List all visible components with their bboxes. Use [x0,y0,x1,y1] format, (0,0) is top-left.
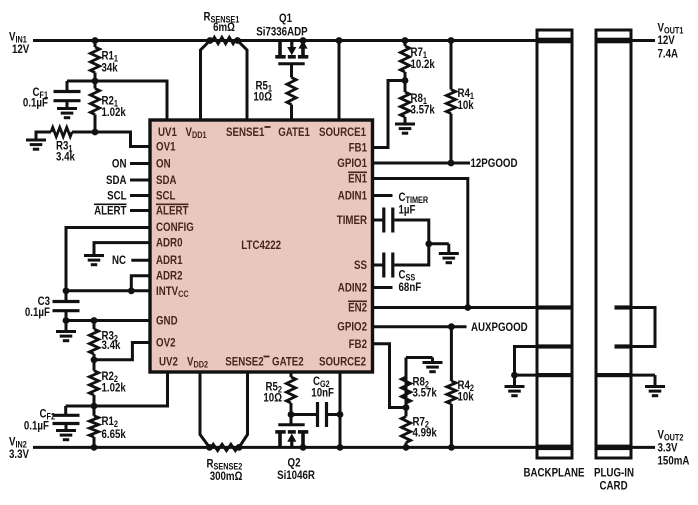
wire INTVCC net [66,289,150,292]
resistor R3_2 3.4k [93,321,96,330]
svg-text:SENSE1: SENSE1 [226,125,265,139]
ground backplane [513,375,516,386]
wire EN2 connection [373,306,538,309]
wire CONFIG connection [66,228,150,291]
resistor R2_1 1.02k [94,81,97,89]
svg-text:SENSE2: SENSE2 [225,355,264,369]
wire ADR2 connection [131,276,150,291]
ground below R8_1 [395,123,415,126]
resistor R1_1 34k [94,41,97,48]
ground above R8_2 [406,356,433,359]
svg-text:300mΩ: 300mΩ [210,469,243,483]
resistor R2_2 1.02k [93,360,96,371]
node SOURCE1 rail tap [336,37,343,44]
node CONFIG/INTVCC junction [63,287,70,294]
resistor R8_1 3.57k [404,81,407,93]
svg-text:DD1: DD1 [192,130,207,140]
node timer/ss junction [425,240,432,247]
svg-text:10nF: 10nF [311,386,334,400]
resistor RSENSE1 6m ohm [213,37,236,43]
svg-text:7.4A: 7.4A [658,47,679,61]
svg-text:SCL: SCL [107,189,126,203]
pin stub SCL [130,194,150,197]
svg-text:1.02k: 1.02k [102,105,127,119]
wire timer cap to ss cap [395,219,429,222]
svg-text:6.65k: 6.65k [102,427,127,441]
svg-text:SS: SS [354,258,367,272]
svg-text:UV2: UV2 [159,355,178,369]
resistor R8_2 3.57k [405,377,408,408]
svg-text:10k: 10k [458,98,474,112]
node Q2 gate junction [288,411,295,418]
backplane pin gnd [538,373,572,377]
svg-text:1µF: 1µF [399,203,416,217]
node RSENSE1 right [234,37,241,44]
svg-text:Si7336ADP: Si7336ADP [256,25,307,39]
svg-text:GATE1: GATE1 [278,125,310,139]
node Q2 source on rail [300,444,307,451]
svg-text:EN2: EN2 [348,301,367,315]
svg-text:4.99k: 4.99k [413,426,438,440]
svg-text:GND: GND [156,314,178,328]
svg-text:CONFIG: CONFIG [156,220,194,234]
svg-text:EN1: EN1 [348,172,367,186]
wire backplane detect to ground [515,347,538,376]
svg-text:3.4k: 3.4k [56,150,75,164]
svg-text:BACKPLANE: BACKPLANE [524,465,585,479]
resistor R4_1 10k [450,41,453,90]
svg-text:3.57k: 3.57k [411,103,436,117]
svg-text:GPIO2: GPIO2 [337,320,367,334]
svg-text:3.3V: 3.3V [658,441,678,455]
svg-text:10Ω: 10Ω [253,90,272,104]
plug-in pin VOUT2 [597,445,631,451]
wire SOURCE2 connection [339,372,342,447]
node EN1/EN2 junction [464,304,471,311]
wire GPIO1 / 12PGOOD [373,162,471,165]
wire plug-in card ground [631,374,655,377]
svg-text:ADR0: ADR0 [156,236,183,250]
node R3_2/R2_2 junction [91,356,98,363]
resistor R1_2 6.65k [93,406,96,416]
svg-text:SCL: SCL [156,189,175,203]
capacitor CF2 0.1uF [66,405,94,408]
svg-text:OV2: OV2 [156,336,176,350]
capacitor CF1 0.1uF [67,80,95,83]
ground at ADR0 [84,254,104,257]
svg-text:ON: ON [156,157,171,171]
node R7/R8/FB1 junction [402,77,409,84]
svg-text:SDA: SDA [106,173,127,187]
svg-text:OV1: OV1 [156,140,176,154]
ground plug-in card [645,385,665,388]
backplane pin EN [538,305,572,309]
svg-text:ON: ON [112,157,127,171]
svg-text:ADIN1: ADIN1 [338,189,367,203]
wire VIN2 rail [33,446,537,449]
wire GND net [66,319,150,322]
node R2_2/R1_2 junction [91,403,98,410]
svg-text:150mA: 150mA [658,454,690,468]
node ADR2/INTVCC junction [128,287,135,294]
wire FB1 connection [373,81,406,148]
svg-text:10.2k: 10.2k [411,57,436,71]
svg-text:12PGOOD: 12PGOOD [471,156,518,170]
plug-in pin detect short [615,344,631,348]
node AUXPGOOD junction [448,323,455,330]
wire SOURCE1 connection [338,41,341,121]
wire ADR1 NC stub [131,259,150,262]
node SOURCE2 rail tap [337,444,344,451]
node RSENSE1 left [207,37,214,44]
node R8/R7/FB2 junction [403,404,410,411]
node GND/C3 junction [63,317,70,324]
svg-text:68nF: 68nF [399,280,422,294]
svg-text:1.02k: 1.02k [102,380,127,394]
wire ADR0 to ground [94,243,150,255]
wire plug-in detect loop [629,308,655,347]
svg-text:12V: 12V [658,33,675,47]
wire EN1 connection [373,179,468,308]
svg-text:ALERT: ALERT [156,204,189,218]
resistor R5_2 10 ohm gate [290,372,293,377]
ground below CF2 [65,423,68,430]
connector backplane outline [537,30,572,458]
pin stub SDA [130,179,150,182]
resistor R5_1 10 ohm gate [290,64,293,78]
svg-text:CC: CC [178,289,189,299]
capacitor C3 0.1uF [65,291,68,302]
wire VOUT2 exit [632,446,655,449]
backplane pin VOUT2 [538,445,572,451]
resistor R4_2 10k [450,327,453,381]
wire VIN1 rail [33,39,537,42]
svg-text:0.1µF: 0.1µF [24,419,49,433]
node R7_2 rail tap [403,444,410,451]
svg-text:34k: 34k [102,61,118,75]
ground at timer/ss [429,242,449,245]
svg-text:ADIN2: ADIN2 [338,281,367,295]
node 12PGOOD junction [448,160,455,167]
wire VDD2 connection [200,372,210,447]
capacitor CTIMER 1uF [373,219,384,222]
svg-text:3.4k: 3.4k [102,338,121,352]
node R2/R3/OV1 junction [92,129,99,136]
svg-text:INTV: INTV [156,284,178,298]
svg-text:FB2: FB2 [349,337,368,351]
node R4_2 rail tap [448,444,455,451]
capacitor CG2 10nF [291,413,318,416]
plug-in pin EN short [615,305,631,309]
ground below CF1 [66,101,69,108]
svg-text:AUXPGOOD: AUXPGOOD [471,320,528,334]
wire SENSE1 connection [238,41,248,121]
node RSENSE2 right [236,444,243,451]
svg-text:DD2: DD2 [194,360,209,370]
node backplane ground junction [511,372,518,379]
resistor R3_1 3.4k horizontal [72,131,95,134]
Q1 gate plate [278,62,304,65]
svg-text:SOURCE2: SOURCE2 [319,355,366,369]
svg-text:SOURCE1: SOURCE1 [319,125,366,139]
wire UV1 connection [95,80,167,83]
svg-text:0.1µF: 0.1µF [25,305,50,319]
svg-text:NC: NC [112,253,126,267]
svg-text:GATE2: GATE2 [272,355,304,369]
wire OV2 connection [94,343,150,360]
wire VDD1 connection [201,41,211,121]
svg-text:CARD: CARD [600,478,628,492]
node R1/R2 junction [92,78,99,85]
ground at R3_1 [35,131,38,140]
svg-text:6mΩ: 6mΩ [213,20,235,34]
pin stub ON [130,162,150,165]
svg-text:SDA: SDA [156,173,177,187]
resistor RSENSE2 300m ohm [211,444,238,450]
svg-text:UV1: UV1 [158,125,177,139]
wire OV1 connection [95,132,150,147]
svg-text:GPIO1: GPIO1 [337,156,367,170]
IC U1 LTC4222 body [150,120,373,372]
svg-text:R1: R1 [102,414,115,428]
plug-in pin VOUT1 [597,38,631,44]
svg-text:Si1046R: Si1046R [277,468,315,482]
svg-text:10Ω: 10Ω [263,391,282,405]
node CG2/SOURCE2 junction [337,411,344,418]
svg-text:PLUG-IN: PLUG-IN [594,465,634,479]
node rail R7 tap [402,37,409,44]
wire UV2 connection [94,372,168,406]
backplane pin VOUT1 [538,38,572,44]
node rail R4 tap [448,37,455,44]
svg-text:10k: 10k [458,389,474,403]
wire SENSE2 connection [239,372,248,447]
node rail R1 tap [92,37,99,44]
svg-text:3.3V: 3.3V [9,447,29,461]
wire VOUT1 exit [632,39,655,42]
plug-in pin gnd [597,373,631,377]
svg-text:ADR2: ADR2 [156,269,183,283]
ground below GND wire [65,321,68,332]
svg-text:ALERT: ALERT [94,204,127,218]
svg-text:TIMER: TIMER [337,213,367,227]
svg-text:12V: 12V [12,42,29,56]
node GND/R3_2 junction [91,317,98,324]
capacitor CSS 68nF [373,264,384,267]
svg-text:3.57k: 3.57k [413,386,438,400]
node R1_2 rail tap [91,444,98,451]
connector plug-in card outline [596,30,631,458]
backplane pin detect [538,344,572,348]
Q2 gate plate [278,423,304,426]
wire FB2 connection [373,344,407,408]
svg-text:0.1µF: 0.1µF [23,96,48,110]
svg-text:LTC4222: LTC4222 [241,238,281,252]
resistor R7_2 4.99k [405,408,408,417]
pin stub ALERT [130,209,150,212]
wire ADIN1 stub [373,194,393,197]
node RSENSE2 left [206,444,213,451]
svg-text:Q1: Q1 [279,11,292,25]
svg-text:ADR1: ADR1 [156,253,183,267]
node Q1 source on rail [300,37,307,44]
wire GPIO2 / AUXPGOOD [373,325,467,328]
resistor R7_1 10.2k [404,41,407,47]
wire ADIN2 stub [373,286,393,289]
svg-text:FB1: FB1 [349,141,368,155]
